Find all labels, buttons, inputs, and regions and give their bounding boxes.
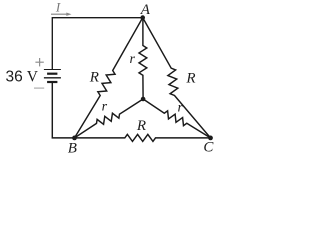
resistor r on edge A-O <box>139 18 147 99</box>
svg-text:36: 36 <box>6 68 23 85</box>
node A <box>140 15 145 20</box>
battery plate long lower <box>44 77 61 79</box>
node center junction <box>141 97 146 102</box>
svg-text:C: C <box>203 140 214 156</box>
current arrow I <box>51 13 67 15</box>
plus sign <box>35 61 43 63</box>
resistor R on edge A-C <box>143 18 211 138</box>
svg-text:R: R <box>89 70 99 86</box>
svg-text:I: I <box>55 0 61 14</box>
node C <box>208 136 213 141</box>
svg-text:r: r <box>177 100 183 115</box>
resistor r on edge B-O <box>75 99 144 138</box>
wire bottom + resistor R between B and C <box>52 82 210 141</box>
svg-text:r: r <box>129 52 135 67</box>
svg-text:r: r <box>102 100 108 115</box>
svg-text:R: R <box>136 118 146 134</box>
svg-text:R: R <box>185 71 195 87</box>
battery plate short thick <box>47 73 57 75</box>
resistor r on edge O-C <box>143 99 210 138</box>
node B <box>72 136 77 141</box>
minus sign <box>34 87 44 89</box>
svg-text:V: V <box>27 68 39 85</box>
wire top loop (battery + to node A) <box>52 18 142 70</box>
battery 36 V plate long top <box>44 69 61 71</box>
svg-text:B: B <box>68 141 77 157</box>
svg-text:A: A <box>140 2 151 18</box>
resistor R on edge A-B <box>75 18 143 138</box>
battery plate short thick bottom <box>47 81 57 83</box>
